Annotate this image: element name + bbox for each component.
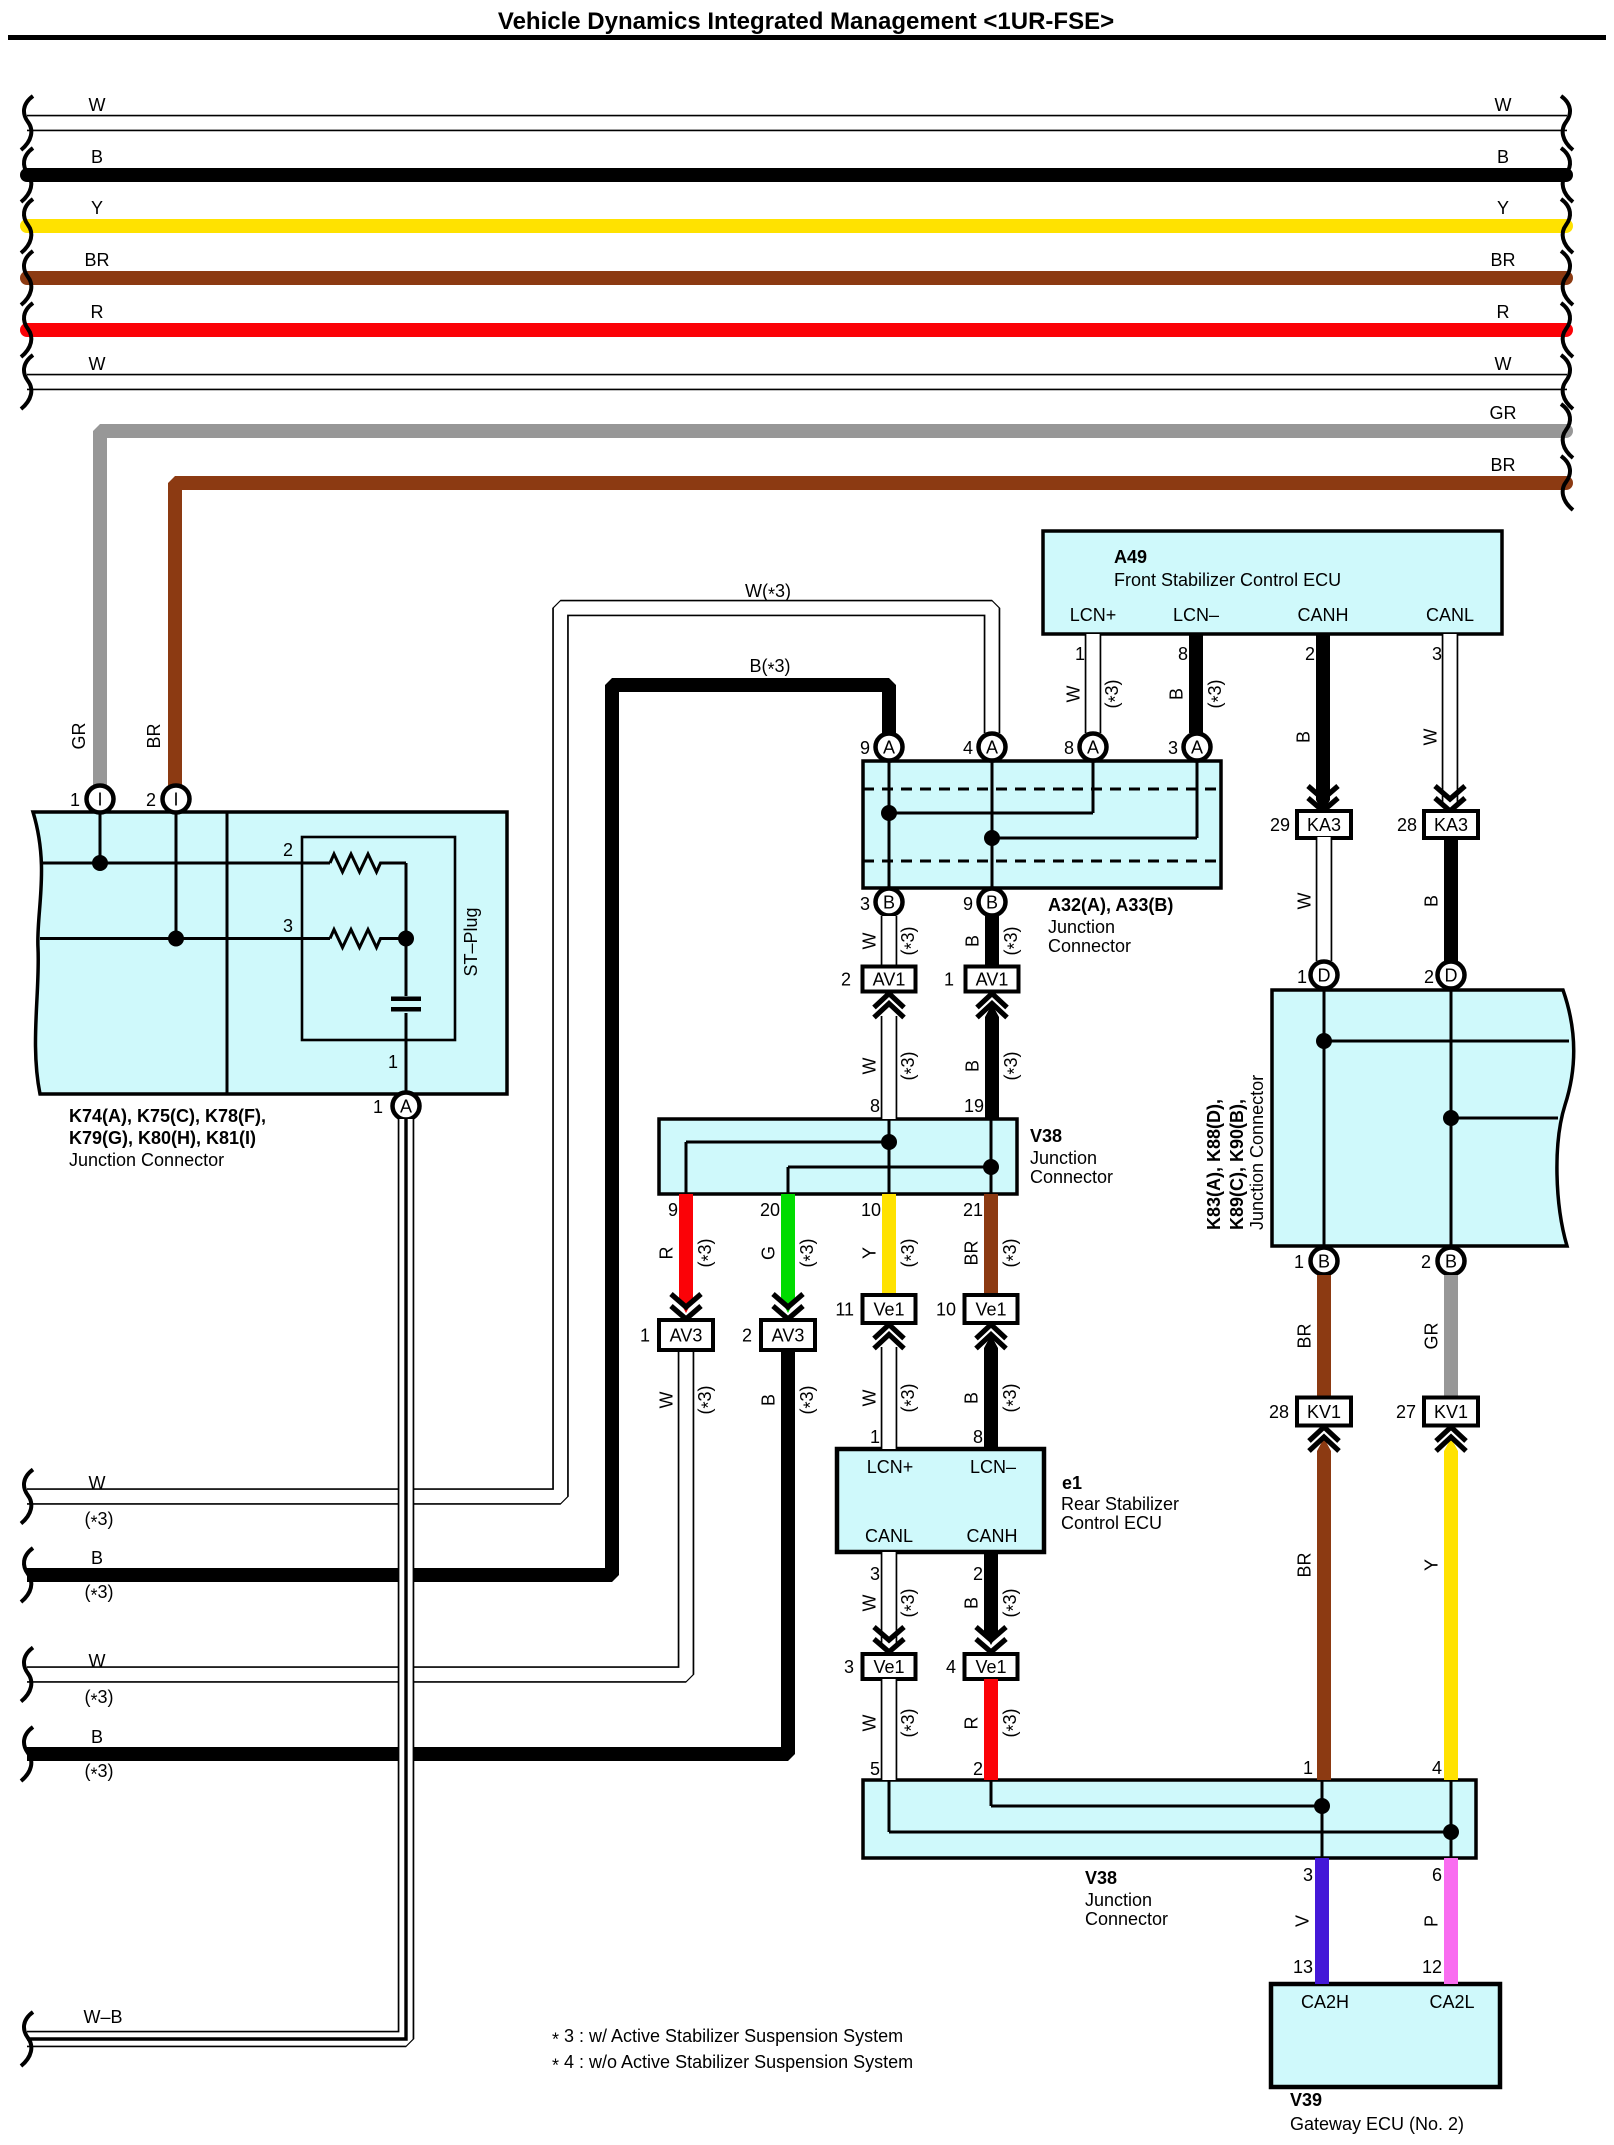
svg-text:AV1: AV1 [976, 970, 1009, 990]
svg-text:(*3): (*3) [1000, 1238, 1024, 1267]
svg-text:BR: BR [144, 723, 164, 748]
wire W(*3) second left break [21, 1648, 33, 1702]
svg-text:Front Stabilizer Control ECU: Front Stabilizer Control ECU [1114, 570, 1341, 590]
wire R bus5 right break [1561, 303, 1573, 357]
svg-text:B: B [91, 147, 103, 167]
svg-text:Y: Y [860, 1247, 880, 1259]
wire W AV1-2 to V38 pin8 [881, 1016, 898, 1119]
wire W bus1 horizontal [27, 115, 1567, 132]
svg-text:3: 3 [860, 894, 870, 914]
svg-text:AV3: AV3 [772, 1326, 805, 1346]
svg-text:K89(C), K90(B),: K89(C), K90(B), [1227, 1099, 1247, 1230]
svg-text:(*3): (*3) [898, 1238, 922, 1267]
svg-text:V: V [1293, 1915, 1313, 1927]
junction dot A32 right [984, 830, 1000, 846]
wire R bus5 horizontal [27, 323, 1566, 337]
wire B(*3) second break labels [84, 1727, 113, 1785]
svg-text:(*3): (*3) [1205, 679, 1229, 708]
wire W-B from K74 circle A to break [27, 1119, 406, 2039]
svg-text:e1: e1 [1062, 1473, 1082, 1493]
wire Y rotated labels [860, 1238, 922, 1267]
svg-text:1: 1 [1297, 967, 1307, 987]
svg-text:29: 29 [1270, 815, 1290, 835]
svg-text:2: 2 [742, 1326, 752, 1346]
svg-text:CA2H: CA2H [1301, 1992, 1349, 2012]
svg-text:A: A [1191, 738, 1203, 758]
title underline [8, 35, 1606, 40]
svg-text:B: B [963, 1060, 983, 1072]
svg-text:W(*3): W(*3) [745, 581, 791, 605]
svg-text:B: B [963, 935, 983, 947]
arrow into KA3 pin28 [1435, 786, 1465, 811]
wire B LCN- rotated labels [1167, 679, 1229, 708]
svg-text:8: 8 [870, 1096, 880, 1116]
svg-text:Ve1: Ve1 [873, 1300, 904, 1320]
svg-text:Y: Y [1422, 1559, 1442, 1571]
splice Ve1 pin4 [946, 1654, 1018, 1679]
wire B bus2 labels [91, 147, 1509, 167]
svg-text:W: W [89, 95, 106, 115]
connector circle 4A A32 [979, 734, 1006, 761]
svg-text:R: R [1497, 302, 1510, 322]
svg-text:BR: BR [84, 250, 109, 270]
wire B(*3) second from break to AV3-2 [27, 1350, 788, 1754]
svg-text:CANL: CANL [865, 1526, 913, 1546]
wire W e1 CANL pin3 [881, 1552, 898, 1646]
svg-text:A: A [1087, 738, 1099, 758]
arrow into KV1 pin27 [1436, 1427, 1466, 1451]
wire W(*3) left break [21, 1470, 33, 1524]
splice Ve1 pin3 [844, 1654, 916, 1679]
svg-text:A: A [883, 738, 895, 758]
svg-text:A: A [986, 738, 998, 758]
svg-text:12: 12 [1422, 1957, 1442, 1977]
arrow into Ve1 pin3 [874, 1627, 904, 1652]
svg-text:W: W [1495, 95, 1512, 115]
wire B A49 LCN- pin8 to A32 3A [1189, 634, 1203, 733]
svg-text:BR: BR [1295, 1323, 1315, 1348]
wire Y bus3 right break [1561, 199, 1573, 253]
wire W A32 3B to AV1-2 [881, 916, 898, 966]
svg-text:Junction: Junction [1085, 1890, 1152, 1910]
connector circle 1D K83 [1311, 962, 1338, 989]
wire B Ve1-e1 rotated labels [962, 1383, 1024, 1412]
ST-Plug internal vertical wire [405, 863, 408, 1092]
wire BR feeder labels [1490, 455, 1515, 475]
svg-text:21: 21 [963, 1200, 983, 1220]
svg-text:BR: BR [1490, 455, 1515, 475]
wire BR KV1-V38low rotated label [1295, 1552, 1315, 1577]
svg-text:W: W [860, 1058, 880, 1075]
junction dot ST-Plug [398, 931, 414, 947]
V38 lower internal wire R-BR [991, 1780, 1322, 1858]
svg-text:W: W [89, 1473, 106, 1493]
wire B(*3) second left break [21, 1727, 33, 1781]
V38 lower caption [1085, 1868, 1168, 1929]
wire W A49 LCN+ pin1 to A32 8A [1085, 634, 1102, 733]
wire B AV1-V38 rotated labels [963, 1051, 1025, 1080]
svg-text:9: 9 [963, 894, 973, 914]
svg-text:W: W [860, 1715, 880, 1732]
svg-text:3: 3 [870, 1564, 880, 1584]
arrow into Ve1 pin11 [874, 1325, 904, 1349]
svg-text:G: G [759, 1246, 779, 1260]
svg-text:GR: GR [69, 722, 89, 749]
connector circle 1 A K74 [393, 1093, 420, 1120]
splice AV1 pin1 [944, 967, 1019, 992]
A32 internal wire 9A-8A [889, 761, 1093, 888]
svg-text:LCN–: LCN– [970, 1457, 1016, 1477]
wire BR 1B rotated label [1295, 1323, 1315, 1348]
svg-text:1: 1 [640, 1326, 650, 1346]
svg-text:8: 8 [1178, 644, 1188, 664]
wire Y bus3 horizontal [27, 219, 1566, 233]
wire W(*3) second rotated labels [657, 1385, 719, 1414]
junction dot V38 upper right [983, 1159, 999, 1175]
svg-text:27: 27 [1396, 1402, 1416, 1422]
svg-text:* 4 : w/o Active Stabilizer Su: * 4 : w/o Active Stabilizer Suspension S… [552, 2052, 913, 2076]
svg-text:8: 8 [973, 1427, 983, 1447]
svg-text:W: W [1421, 729, 1441, 746]
wire GR right break [1561, 404, 1573, 458]
wire GR 2B rotated label [1422, 1322, 1442, 1349]
K83 internal wire D1-B1 [1324, 990, 1569, 1246]
svg-text:1: 1 [70, 790, 80, 810]
junction connector V38 lower box [863, 1780, 1476, 1858]
svg-text:AV3: AV3 [670, 1326, 703, 1346]
svg-text:R: R [962, 1717, 982, 1730]
wire W(*3) second break labels [84, 1651, 113, 1711]
wire W LCN+ rotated labels [1064, 679, 1126, 708]
wire GR labels [1490, 403, 1517, 423]
svg-text:BR: BR [1295, 1552, 1315, 1577]
svg-text:1: 1 [1075, 644, 1085, 664]
svg-text:B: B [1497, 147, 1509, 167]
wire BR bus4 left break [21, 251, 33, 305]
wire R rotated labels [657, 1238, 719, 1267]
svg-text:3: 3 [1432, 644, 1442, 664]
svg-text:(*3): (*3) [695, 1385, 719, 1414]
svg-text:(*3): (*3) [1000, 1708, 1024, 1737]
svg-text:W: W [860, 933, 880, 950]
wire Y V38 pin10 to Ve1-11 [882, 1194, 896, 1295]
svg-text:5: 5 [870, 1759, 880, 1779]
wire B AV1-1 to V38 pin19 [985, 1017, 999, 1119]
svg-text:13: 13 [1293, 1957, 1313, 1977]
wire Y bus3 labels [91, 198, 1509, 218]
svg-text:AV1: AV1 [873, 970, 906, 990]
svg-text:LCN+: LCN+ [867, 1457, 914, 1477]
svg-text:W–B: W–B [83, 2007, 122, 2027]
svg-text:2: 2 [1305, 644, 1315, 664]
svg-text:B: B [91, 1548, 103, 1568]
svg-text:10: 10 [861, 1200, 881, 1220]
wire V rotated label [1293, 1915, 1313, 1927]
K74 caption [69, 1106, 266, 1170]
svg-text:(*3): (*3) [84, 1582, 113, 1606]
svg-text:R: R [657, 1247, 677, 1260]
svg-text:Y: Y [91, 198, 103, 218]
svg-text:Junction Connector: Junction Connector [1247, 1075, 1267, 1230]
svg-text:6: 6 [1432, 1865, 1442, 1885]
junction dot K74 pin1 [92, 855, 108, 871]
capacitor in ST-Plug [391, 997, 421, 1002]
svg-text:B: B [962, 1392, 982, 1404]
wire W bus1 left break [21, 96, 33, 150]
wire R bus5 labels [91, 302, 1510, 322]
splice Ve1 pin10 [936, 1295, 1018, 1323]
wire Y KV1-V38low rotated label [1422, 1559, 1442, 1571]
junction dot V38 upper left [881, 1134, 897, 1150]
ST-Plug inner box [302, 837, 455, 1040]
svg-text:KV1: KV1 [1307, 1402, 1341, 1422]
connector circle 9B A32 [979, 889, 1006, 916]
splice AV3 pin2 [742, 1320, 815, 1350]
junction connector K83(A) K88(D) K89(C) K90(B) box [1272, 990, 1574, 1246]
svg-text:3: 3 [1168, 738, 1178, 758]
svg-text:10: 10 [936, 1300, 956, 1320]
wire B bus2 horizontal [27, 168, 1566, 182]
wire R Ve1-V38low rotated labels [962, 1708, 1024, 1737]
A49 caption [1070, 547, 1474, 625]
svg-text:2: 2 [283, 840, 293, 860]
wire W bus1 right break [1561, 96, 1573, 150]
svg-text:A49: A49 [1114, 547, 1147, 567]
svg-text:9: 9 [860, 738, 870, 758]
wire B(*3) left break [21, 1548, 33, 1602]
svg-text:(*3): (*3) [695, 1238, 719, 1267]
wire R Ve1-4 to V38 lower pin2 [984, 1679, 998, 1780]
svg-text:I: I [173, 790, 178, 810]
svg-text:P: P [1422, 1915, 1442, 1927]
svg-text:D: D [1318, 966, 1331, 986]
K74 internal wire from pin1 [40, 812, 330, 863]
wire BR V38 pin21 to Ve1-10 [984, 1194, 998, 1295]
K83 internal wire D2-B2 [1451, 990, 1558, 1246]
svg-text:19: 19 [964, 1096, 984, 1116]
svg-text:K83(A), K88(D),: K83(A), K88(D), [1204, 1099, 1224, 1230]
svg-text:W: W [1295, 893, 1315, 910]
ECU V39 Gateway box [1271, 1984, 1500, 2087]
svg-text:B: B [91, 1727, 103, 1747]
svg-text:B: B [1294, 731, 1314, 743]
connector circle 2D K83 [1438, 962, 1465, 989]
connector circle 8A A32 [1080, 734, 1107, 761]
junction dot A32 left [881, 805, 897, 821]
wire W KA3-29 to K83 1D [1316, 837, 1333, 961]
svg-text:(*3): (*3) [1000, 1383, 1024, 1412]
wire W bus6 right break [1561, 355, 1573, 409]
wire V V38 lower pin3 to V39 CA2H [1315, 1858, 1329, 1984]
wire G rotated labels [759, 1238, 821, 1267]
svg-text:Gateway ECU (No. 2): Gateway ECU (No. 2) [1290, 2114, 1464, 2134]
svg-text:Junction: Junction [1030, 1148, 1097, 1168]
wire B KA3-28 to K83 2D [1444, 837, 1458, 961]
svg-text:9: 9 [668, 1200, 678, 1220]
wire B(*3) second rotated labels [759, 1385, 821, 1414]
svg-text:* 3 : w/ Active Stabilizer Sus: * 3 : w/ Active Stabilizer Suspension Sy… [552, 2026, 903, 2050]
A32 dashed internal rows [863, 789, 1221, 861]
svg-text:(*3): (*3) [898, 1383, 922, 1412]
junction connector K74(A) K75(C) K78(F) K79(G) K80(H) K81(I) box [33, 812, 507, 1094]
svg-text:A: A [400, 1097, 412, 1117]
svg-text:Ve1: Ve1 [975, 1300, 1006, 1320]
svg-text:3: 3 [1303, 1865, 1313, 1885]
wire W-B left break [21, 2012, 33, 2066]
connector circle 2B K83 [1438, 1248, 1465, 1275]
svg-text:(*3): (*3) [84, 1687, 113, 1711]
wire W(*3) break labels [84, 1473, 113, 1533]
K74 internal wire from pin2 [40, 812, 330, 939]
wire Y bus3 left break [21, 199, 33, 253]
wire BR KV1-28 to V38 lower pin1 [1317, 1451, 1331, 1780]
svg-text:V38: V38 [1085, 1868, 1117, 1888]
splice Ve1 pin11 [835, 1295, 915, 1323]
wire W bus6 horizontal [27, 374, 1567, 391]
wire Y KV1-27 to V38 lower pin4 [1444, 1451, 1458, 1780]
splice KV1 pin27 [1396, 1398, 1478, 1426]
wire W bus6 labels [89, 354, 1512, 374]
wire P V38 lower pin6 to V39 CA2L [1444, 1858, 1458, 1984]
wire W CANL-e1 rotated labels [860, 1588, 922, 1617]
svg-text:LCN+: LCN+ [1070, 605, 1117, 625]
svg-text:Y: Y [1497, 198, 1509, 218]
splice AV3 pin1 [640, 1320, 713, 1350]
wire B bus2 left break [21, 148, 33, 202]
svg-text:Connector: Connector [1085, 1909, 1168, 1929]
svg-text:Ve1: Ve1 [975, 1657, 1006, 1677]
svg-text:Rear Stabilizer: Rear Stabilizer [1061, 1494, 1179, 1514]
svg-text:D: D [1445, 966, 1458, 986]
svg-text:1: 1 [373, 1097, 383, 1117]
wire B A49 CANH pin2 [1316, 634, 1330, 800]
svg-text:B: B [1422, 895, 1442, 907]
svg-text:I: I [97, 790, 102, 810]
splice KA3 pin28 [1397, 811, 1478, 838]
svg-text:R: R [91, 302, 104, 322]
svg-text:W: W [860, 1390, 880, 1407]
junction dot K83 left [1316, 1033, 1332, 1049]
wire W CANL rotated label [1421, 729, 1441, 746]
svg-text:W: W [657, 1392, 677, 1409]
svg-text:CA2L: CA2L [1429, 1992, 1474, 2012]
wire W(*3) second from break to AV3-1 [27, 1350, 686, 1675]
svg-text:(*3): (*3) [898, 1588, 922, 1617]
wire BR to K74 pin2 [175, 483, 1566, 787]
svg-text:Vehicle Dynamics Integrated Ma: Vehicle Dynamics Integrated Management <… [498, 8, 1114, 35]
svg-text:B: B [759, 1394, 779, 1406]
junction dot V38 lower left [1314, 1798, 1330, 1814]
arrow into Ve1 pin10 [976, 1325, 1006, 1349]
junction connector V38 upper box [659, 1119, 1017, 1194]
svg-text:B: B [1167, 688, 1187, 700]
wire W AV1-V38 rotated labels [860, 1051, 922, 1080]
svg-text:(*3): (*3) [797, 1385, 821, 1414]
svg-text:GR: GR [1422, 1322, 1442, 1349]
wire GR to K74 pin1 [100, 431, 1566, 787]
V38 lower internal wire W-Y [889, 1780, 1451, 1858]
splice KV1 pin28 [1269, 1398, 1351, 1426]
wire B CANH-e1 rotated labels [962, 1588, 1024, 1617]
wire W bus6 left break [21, 355, 33, 409]
svg-text:Connector: Connector [1048, 936, 1131, 956]
svg-text:(*3): (*3) [84, 1509, 113, 1533]
svg-text:(*3): (*3) [1001, 1051, 1025, 1080]
svg-text:1: 1 [944, 970, 954, 990]
connector circle 1 I [87, 786, 114, 813]
V38 upper internal wire W [686, 1119, 889, 1194]
svg-text:A32(A), A33(B): A32(A), A33(B) [1048, 895, 1173, 915]
arrow into AV1 pin2 [874, 994, 904, 1018]
svg-text:(*3): (*3) [1001, 926, 1025, 955]
svg-text:1: 1 [1294, 1252, 1304, 1272]
svg-text:B: B [1445, 1252, 1457, 1272]
svg-text:3: 3 [283, 916, 293, 936]
wire B Ve1-10 to e1 LCN- pin8 [984, 1348, 998, 1449]
resistor in ST-Plug pin2 branch [330, 854, 406, 872]
svg-text:W: W [89, 1651, 106, 1671]
connector circle 2 I [163, 786, 190, 813]
resistor in ST-Plug pin3 branch [330, 930, 406, 948]
wire W bus1 labels [89, 95, 1512, 115]
wire BR bus4 labels [84, 250, 1515, 270]
svg-text:B: B [986, 893, 998, 913]
K83 caption rotated [1204, 1075, 1267, 1230]
svg-text:B: B [883, 893, 895, 913]
svg-text:2: 2 [1424, 967, 1434, 987]
wire G V38 pin20 to AV3-2 [781, 1194, 795, 1300]
wire W(*3) from break to A32 4A [27, 608, 992, 1497]
svg-text:4: 4 [946, 1657, 956, 1677]
arrow into AV1 pin1 [977, 994, 1007, 1018]
svg-text:W: W [860, 1595, 880, 1612]
V38 upper caption [1030, 1126, 1113, 1187]
svg-text:K74(A), K75(C), K78(F),: K74(A), K75(C), K78(F), [69, 1106, 266, 1126]
svg-text:1: 1 [1303, 1758, 1313, 1778]
wire W 3B rotated labels [860, 926, 922, 955]
svg-text:LCN–: LCN– [1173, 605, 1219, 625]
svg-text:2: 2 [841, 970, 851, 990]
svg-text:CANH: CANH [1297, 605, 1348, 625]
svg-text:Connector: Connector [1030, 1167, 1113, 1187]
svg-text:GR: GR [1490, 403, 1517, 423]
arrow into AV3 pin2 [773, 1294, 803, 1319]
svg-text:W: W [1495, 354, 1512, 374]
svg-text:(*3): (*3) [797, 1238, 821, 1267]
e1 caption [865, 1457, 1179, 1546]
wire W A49 CANL pin3 [1442, 634, 1459, 806]
wire B 9B rotated labels [963, 926, 1025, 955]
svg-text:(*3): (*3) [84, 1761, 113, 1785]
svg-text:4: 4 [1432, 1758, 1442, 1778]
wire P rotated label [1422, 1915, 1442, 1927]
wire W Ve1-V38low rotated labels [860, 1708, 922, 1737]
V38 upper internal wire B [788, 1119, 991, 1194]
svg-text:W: W [1064, 686, 1084, 703]
wire B bus2 right break [1561, 148, 1573, 202]
svg-text:2: 2 [1421, 1252, 1431, 1272]
wire W KA3-D rotated label [1295, 893, 1315, 910]
svg-text:V38: V38 [1030, 1126, 1062, 1146]
wire B(*3) from break to A32 9A [27, 685, 889, 1575]
svg-text:BR: BR [1490, 250, 1515, 270]
wire W Ve1-e1 rotated labels [860, 1383, 922, 1412]
wire B A32 9B to AV1-1 [985, 916, 999, 966]
svg-text:KA3: KA3 [1434, 815, 1468, 835]
junction dot K83 right [1443, 1110, 1459, 1126]
A32 internal wire 4A-3A [992, 761, 1197, 888]
wire W Ve1-3 to V38 lower pin5 [881, 1679, 898, 1780]
